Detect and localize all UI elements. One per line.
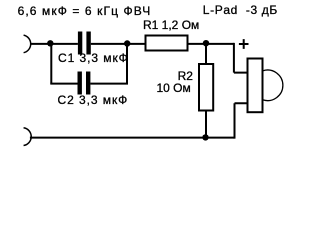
- capacitor C2: [78, 72, 91, 95]
- resistor R2: [199, 64, 213, 111]
- wire bottom branch: C2 to riser: [90, 44, 127, 85]
- resistor R1: [146, 36, 188, 51]
- plus polarity mark: [239, 39, 249, 49]
- wire: corner down to speaker top stub: [234, 43, 248, 73]
- wire top: C1 right plate to R1: [91, 43, 146, 45]
- label: R1 value: [143, 19, 199, 31]
- input terminal bottom-left: [24, 128, 32, 146]
- label: R2 designator: [178, 70, 193, 82]
- wire bottom branch: D1 down to C2: [50, 83, 77, 85]
- speaker dome: [263, 70, 283, 101]
- node junction D3: [203, 40, 209, 46]
- node junction D1: [47, 40, 53, 46]
- wire: R2 bottom lead: [205, 111, 207, 138]
- input terminal top-left: [24, 35, 31, 53]
- label: C1 value: [58, 52, 129, 64]
- wire bottom: terminal to speaker riser: [30, 137, 235, 139]
- label: crossover frequency note: [18, 5, 152, 17]
- wire top: terminal to C1 left plate: [31, 43, 78, 45]
- wire: riser up to speaker bottom stub: [235, 103, 248, 138]
- speaker LS1 body: [248, 59, 263, 113]
- label: L-Pad note: [203, 4, 278, 16]
- label: C2 value: [58, 94, 129, 106]
- wire branch vertical from D1: [50, 44, 52, 84]
- node junction D2: [124, 40, 130, 46]
- wire: R1 to corner: [188, 43, 235, 45]
- capacitor C1: [78, 32, 91, 55]
- wire: R2 top lead: [205, 44, 207, 64]
- node junction D4: [202, 134, 208, 140]
- label: R2 value: [157, 82, 191, 94]
